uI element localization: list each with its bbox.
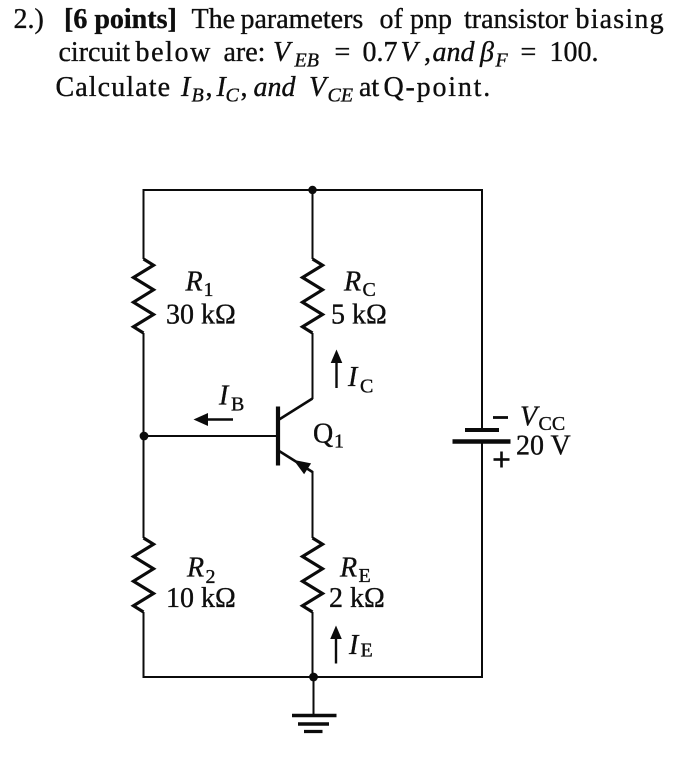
svg-text:I: I bbox=[347, 362, 359, 393]
current arrow IC shaft bbox=[335, 361, 337, 388]
svg-text:5 kΩ: 5 kΩ bbox=[331, 300, 387, 331]
transistor Q1 base bar bbox=[276, 407, 280, 466]
node base junction dot bbox=[140, 432, 149, 441]
svg-text:V: V bbox=[520, 402, 540, 433]
node top junction dot bbox=[308, 186, 316, 194]
svg-text:I: I bbox=[218, 381, 230, 412]
wire right upper bbox=[481, 189, 483, 429]
svg-text:30 kΩ: 30 kΩ bbox=[166, 300, 236, 331]
wire left upper bbox=[143, 189, 145, 259]
battery VCC bottom plate bbox=[453, 439, 511, 443]
current arrow IC head bbox=[331, 350, 343, 364]
transistor Q1 emitter arrowhead bbox=[294, 460, 312, 474]
battery plus sign bbox=[494, 458, 510, 461]
svg-text:C: C bbox=[360, 376, 373, 398]
resistor RC bbox=[303, 259, 323, 333]
wire bottom horizontal bbox=[143, 676, 484, 678]
wire emitter diagonal bbox=[278, 450, 313, 472]
current arrow IB shaft bbox=[206, 418, 233, 420]
svg-text:2 kΩ: 2 kΩ bbox=[329, 583, 385, 614]
svg-text:circuitbeloware:VEB=0.7V,andβF: circuitbeloware:VEB=0.7V,andβF=100. bbox=[59, 37, 599, 72]
svg-text:R: R bbox=[185, 267, 203, 298]
svg-text:2.)[6 points]Theparametersofpn: 2.)[6 points]Theparametersofpnptransisto… bbox=[14, 4, 665, 35]
wire middle upper bbox=[312, 190, 314, 259]
svg-text:20 V: 20 V bbox=[516, 431, 571, 462]
svg-text:R: R bbox=[339, 553, 357, 584]
battery VCC top plate bbox=[465, 428, 499, 432]
battery minus sign bbox=[493, 416, 508, 419]
svg-text:C: C bbox=[363, 279, 376, 301]
resistor RE bbox=[303, 538, 323, 612]
svg-text:R: R bbox=[343, 267, 361, 298]
current arrow IE head bbox=[330, 626, 342, 640]
wire top horizontal bbox=[143, 189, 484, 191]
svg-text:CalculateIB,IC,andVCEatQ-point: CalculateIB,IC,andVCEatQ-point. bbox=[56, 72, 493, 107]
wire right lower bbox=[481, 443, 483, 679]
resistor R2 bbox=[134, 538, 154, 612]
wire collector diagonal bbox=[278, 399, 313, 421]
node bottom junction dot bbox=[309, 673, 318, 682]
svg-text:E: E bbox=[361, 640, 373, 662]
ground stub bbox=[313, 677, 315, 715]
current arrow IB head bbox=[194, 413, 209, 426]
ground bar 3 bbox=[304, 730, 323, 733]
wire base horizontal bbox=[144, 435, 276, 437]
wire left lower bbox=[143, 612, 145, 678]
svg-text:B: B bbox=[231, 394, 244, 416]
wire collector vertical bbox=[312, 333, 314, 399]
ground bar 1 bbox=[292, 714, 337, 718]
svg-text:I: I bbox=[348, 630, 360, 661]
wire emitter lower bbox=[312, 612, 314, 677]
svg-text:10 kΩ: 10 kΩ bbox=[166, 583, 236, 614]
wire emitter vertical bbox=[312, 471, 314, 538]
svg-text:R: R bbox=[186, 553, 204, 584]
svg-text:1: 1 bbox=[204, 279, 214, 301]
wire left middle bbox=[143, 333, 145, 538]
svg-text:Q: Q bbox=[313, 419, 333, 450]
current arrow IE shaft bbox=[335, 637, 337, 664]
svg-text:1: 1 bbox=[334, 431, 344, 453]
ground bar 2 bbox=[298, 722, 329, 726]
resistor R1 bbox=[134, 259, 154, 333]
